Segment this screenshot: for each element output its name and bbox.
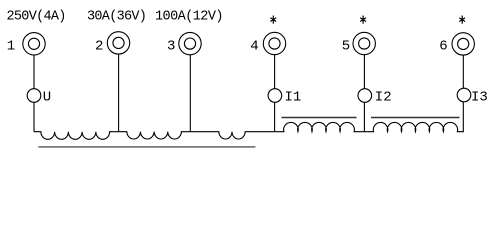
wire terminal1 to voltmeter U bbox=[33, 55, 35, 89]
svg-text:1: 1 bbox=[7, 39, 15, 55]
svg-text:4: 4 bbox=[250, 38, 258, 54]
voltmeter U bbox=[27, 89, 41, 103]
wire I3 to node C bbox=[462, 102, 464, 132]
terminal 2 bbox=[107, 32, 129, 54]
wire terminal2 to winding tap 2 bbox=[118, 54, 120, 132]
svg-text:6: 6 bbox=[439, 38, 447, 54]
inductor L1 (between node A and node B, humps above line) bbox=[275, 122, 365, 131]
svg-text:I1: I1 bbox=[285, 89, 302, 105]
svg-text:2: 2 bbox=[95, 38, 103, 54]
wire I1 to node A bbox=[274, 102, 276, 131]
svg-text:I2: I2 bbox=[375, 89, 392, 105]
autotransformer winding T1 (taps 1-2-3-4, scallops below line) bbox=[34, 132, 275, 140]
terminal 1 bbox=[23, 33, 45, 55]
svg-text:5: 5 bbox=[342, 38, 350, 54]
svg-text:3: 3 bbox=[167, 38, 175, 54]
wire terminal4 to ammeter I1 bbox=[274, 55, 276, 89]
wire U to winding tap 1 bbox=[33, 102, 35, 131]
svg-text:250V(4A): 250V(4A) bbox=[7, 9, 66, 24]
svg-text:30A(36V): 30A(36V) bbox=[87, 9, 146, 24]
svg-text:100A(12V): 100A(12V) bbox=[155, 9, 223, 24]
ammeter I3 bbox=[457, 88, 471, 102]
terminal 3 bbox=[179, 32, 201, 54]
wire terminal3 to winding tap 3 bbox=[189, 55, 191, 132]
polarity mark * terminal 5 bbox=[360, 16, 366, 24]
inductor L2 (between node B and node C, humps above line) bbox=[364, 122, 463, 131]
svg-text:U: U bbox=[43, 89, 51, 105]
core bar of L2 bbox=[371, 117, 460, 119]
ammeter I2 bbox=[358, 89, 372, 103]
terminal 6 bbox=[452, 33, 474, 55]
polarity mark * terminal 4 bbox=[270, 16, 276, 24]
wire terminal5 to ammeter I2 bbox=[363, 55, 365, 89]
svg-text:I3: I3 bbox=[471, 89, 488, 105]
terminal 4 bbox=[263, 32, 285, 54]
wire terminal6 to ammeter I3 bbox=[462, 55, 464, 88]
polarity mark * terminal 6 bbox=[459, 16, 465, 24]
wire I2 to node B bbox=[363, 102, 365, 131]
ammeter I1 bbox=[268, 89, 282, 103]
core bar of L1 bbox=[282, 117, 357, 119]
terminal 5 bbox=[353, 32, 375, 54]
core line of T1 bbox=[38, 146, 255, 148]
